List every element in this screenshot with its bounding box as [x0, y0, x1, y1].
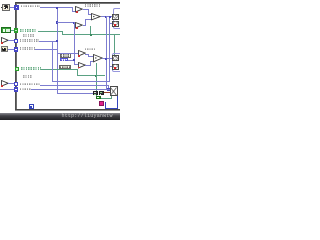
numeric constant box — [60, 58, 68, 61]
green branch vertical x90.7 — [90, 26, 91, 35]
bundle icon 2 — [99, 91, 104, 96]
icon W3 — [112, 55, 118, 61]
blue rect R2 — [112, 53, 122, 71]
label L5b — [23, 75, 32, 78]
vertical v2 x74 — [74, 22, 75, 65]
label L3 — [20, 39, 39, 42]
junction dot — [56, 7, 58, 9]
green junction dot — [90, 34, 92, 36]
red dot TE — [78, 67, 80, 69]
vertical v1 x56.9 — [57, 7, 58, 93]
junction dot — [56, 21, 58, 23]
label L6 — [20, 83, 40, 86]
triangle TC — [91, 13, 101, 21]
bundle icon 1 — [93, 91, 98, 96]
wire icon2 stub — [109, 23, 112, 24]
icon I3 terminal — [1, 46, 8, 52]
long green wire — [62, 34, 120, 35]
wire I2 to tunnel — [11, 30, 14, 31]
red dot T2 — [1, 85, 3, 87]
wire row4 — [35, 49, 57, 50]
green vertical x114 to icon3 — [114, 34, 115, 55]
green vertical x96 — [96, 63, 97, 96]
label L1 — [21, 5, 40, 8]
red dot TD — [78, 55, 80, 57]
wire I1 to tunnel — [10, 7, 14, 8]
wire y85 — [40, 85, 109, 86]
magenta stop square — [99, 101, 104, 106]
iteration terminal i — [29, 104, 34, 109]
red dot TA — [76, 11, 78, 13]
wire from left edge row8 — [0, 89, 14, 90]
wire to TB — [57, 22, 75, 23]
icon W2 — [112, 21, 118, 27]
wire TF out — [102, 58, 112, 59]
junction dot — [105, 58, 107, 60]
junction dot — [56, 40, 58, 42]
blue rect R1 — [113, 8, 122, 29]
icon W4 — [112, 64, 118, 70]
vertical x52.5 — [52, 41, 53, 82]
tunnel Tn5 green — [15, 67, 19, 71]
tunnel Tn4 blue — [14, 47, 18, 51]
green wire TM to X box — [101, 98, 111, 99]
green long wire y76 — [77, 75, 105, 76]
watermark bar — [0, 113, 120, 120]
junction dot x74 — [73, 22, 75, 24]
wire I3 to tunnel — [8, 49, 14, 50]
while loop border bottom — [15, 109, 121, 110]
junction dot — [105, 16, 107, 18]
wire row2 green — [38, 31, 63, 32]
wire y81.5 — [52, 81, 110, 82]
wire icon4 stub — [109, 66, 112, 67]
label L2b gray — [23, 34, 36, 37]
icon I1 mouse-acquire terminal — [2, 4, 10, 11]
wire TB out — [83, 25, 86, 26]
while loop border left — [15, 2, 16, 110]
label L7 — [20, 88, 31, 91]
label L5 green — [21, 67, 41, 70]
wire y93 — [57, 93, 94, 94]
tunnel Tn3 blue — [14, 39, 18, 43]
triangle TF — [93, 54, 103, 63]
wire TE out — [85, 65, 90, 66]
label box A — [60, 53, 71, 57]
wire row1 — [40, 7, 73, 8]
wire row6 green — [41, 69, 78, 70]
red dot TB — [76, 27, 78, 29]
icon W1 — [112, 14, 118, 20]
label box B — [59, 65, 71, 69]
label above TD — [85, 48, 96, 50]
label L2 green — [20, 29, 38, 32]
boolean terminal I2 — [1, 27, 11, 33]
tunnel Tn6 blue — [14, 82, 18, 86]
label top right — [85, 4, 100, 6]
triangle TB — [75, 22, 83, 30]
label L4 — [20, 47, 36, 50]
vertical x105.7 — [106, 16, 107, 89]
red dot T1 — [1, 42, 3, 44]
wire TC out — [101, 16, 113, 17]
wire row3 — [39, 41, 58, 42]
green dot — [95, 75, 97, 77]
tunnel Tn1 blue — [14, 5, 18, 9]
wire T1 to tunnel — [8, 40, 14, 41]
tunnel Tn7 blue — [14, 87, 18, 91]
green TM constant — [96, 96, 101, 99]
X box main VI — [110, 86, 118, 96]
triangle T2 — [1, 80, 9, 88]
wire TD out — [85, 54, 88, 55]
triangle TA — [75, 6, 83, 14]
while loop border top — [15, 2, 121, 3]
wire y89.5 — [31, 89, 110, 90]
blue wire loop bottom right — [105, 102, 106, 109]
triangle TD — [78, 50, 86, 58]
brown wire to X box — [104, 92, 110, 93]
junction dot — [107, 88, 109, 90]
vertical x109.7 — [109, 16, 110, 81]
triangle TE — [78, 62, 86, 70]
triangle T1 — [1, 37, 9, 45]
wire T2 to tunnel — [8, 83, 15, 84]
wire TA out — [83, 9, 89, 10]
constant out wire — [68, 60, 74, 61]
wire TD input — [57, 53, 78, 54]
tunnel Tn2 green — [14, 28, 18, 32]
